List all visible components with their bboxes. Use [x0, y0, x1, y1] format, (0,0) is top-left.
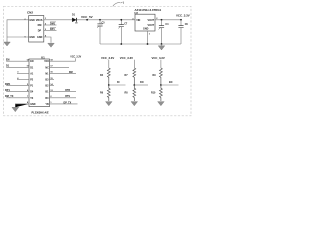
svg-text:EN: EN	[169, 81, 173, 84]
svg-text:DP1: DP1	[50, 28, 55, 31]
svg-text:VBUS: VBUS	[36, 19, 43, 22]
svg-text:GND: GND	[29, 19, 35, 22]
wire ground rail	[100, 43, 181, 45]
ground (col3)	[158, 102, 165, 106]
svg-text:DP_TX: DP_TX	[64, 101, 72, 104]
wire	[160, 60, 162, 68]
capacitor C7	[118, 20, 128, 44]
svg-text:R10: R10	[151, 92, 156, 95]
wire U1 right row5	[50, 85, 55, 87]
wire	[133, 60, 135, 68]
svg-text:DTR: DTR	[65, 89, 70, 92]
svg-text:EN: EN	[6, 58, 10, 61]
node col1	[108, 84, 110, 86]
wire VBUS pin1	[44, 19, 72, 21]
svg-text:DM: DM	[38, 24, 42, 27]
svg-text:DO: DO	[140, 81, 144, 84]
svg-text:VCC_5V: VCC_5V	[81, 15, 93, 19]
svg-text:VCC_3.3V: VCC_3.3V	[70, 56, 81, 58]
resistor column 3	[151, 56, 179, 106]
svg-text:DM1: DM1	[5, 83, 11, 86]
wire	[108, 60, 110, 68]
wire U1 right row7 RTS	[50, 97, 77, 99]
node col3	[160, 84, 162, 86]
svg-text:GND: GND	[29, 36, 35, 39]
ground (CN2 pin4)	[48, 43, 55, 47]
ground (col1)	[106, 102, 113, 106]
node C4 top	[161, 19, 163, 21]
node rail junctions	[120, 43, 122, 45]
resistor R7	[133, 68, 136, 85]
capacitor C5	[97, 20, 105, 44]
diode D1	[72, 14, 78, 25]
wire U1 gnd row8	[15, 104, 29, 107]
svg-text:TX: TX	[30, 97, 33, 100]
svg-text:DM: DM	[69, 71, 73, 74]
wire CN2 shield gnds	[7, 20, 29, 42]
resistor column 1	[100, 56, 126, 106]
wire DP pin3	[44, 30, 57, 32]
resistor R10	[159, 85, 162, 101]
wire U1 left row3	[17, 72, 29, 74]
annotation mark	[113, 2, 124, 7]
svg-text:DM_TX: DM_TX	[5, 95, 14, 98]
wire U1 right row3	[50, 72, 77, 74]
wire U1 left row1 EN	[6, 60, 29, 62]
wire U1 right row6 DTR	[50, 91, 77, 93]
wire stub EN	[161, 84, 179, 86]
wire U2 output VCC_3.3V	[155, 19, 181, 21]
svg-text:EN: EN	[30, 60, 34, 63]
svg-text:GND: GND	[37, 36, 43, 39]
node col2	[133, 84, 135, 86]
svg-text:DI: DI	[117, 81, 120, 84]
svg-text:VOUT: VOUT	[148, 24, 155, 27]
wire U1 left row2	[6, 66, 29, 68]
svg-text:DM1: DM1	[50, 22, 56, 25]
wire U1 left row7 DM_TX	[6, 97, 29, 99]
svg-text:GND: GND	[30, 103, 36, 106]
svg-text:RTS: RTS	[65, 95, 70, 98]
wire stub DI	[109, 84, 126, 86]
svg-text:VIN: VIN	[136, 19, 140, 22]
wire U1 right row2	[50, 66, 70, 68]
resistor R9	[159, 68, 162, 85]
node VCC_5V	[86, 19, 88, 21]
wire U1 left row4	[17, 79, 29, 81]
regulator U2	[132, 8, 161, 36]
ground (U1)	[12, 107, 19, 111]
resistor R6	[107, 85, 110, 101]
wire CN2 pin4 gnd	[44, 37, 51, 43]
node C6 top	[180, 19, 182, 21]
resistor R4	[107, 68, 110, 85]
svg-text:NC: NC	[45, 66, 49, 69]
capacitor C6	[178, 20, 188, 44]
wire U1 right row8 DP_TX	[50, 103, 78, 105]
svg-text:VCC_3.3V: VCC_3.3V	[176, 14, 190, 18]
svg-text:CN2: CN2	[27, 10, 33, 14]
ground (col2)	[131, 102, 138, 106]
capacitor C4	[159, 20, 170, 44]
svg-text:PL2303HX-A/E: PL2303HX-A/E	[32, 112, 50, 115]
svg-text:DP: DP	[38, 30, 42, 33]
wire VCC_5V rail	[77, 19, 136, 21]
svg-text:YB: YB	[45, 103, 49, 106]
wire DM pin2	[44, 24, 57, 26]
connector CN2	[25, 10, 47, 42]
svg-text:AZ1117EH-3.3TRG1: AZ1117EH-3.3TRG1	[135, 8, 162, 12]
wire U1 right row4	[50, 79, 55, 81]
svg-text:VCC_3.3V: VCC_3.3V	[152, 56, 165, 60]
wire U1 left row5 DM1	[6, 85, 29, 87]
wire U1 right row1 VCC	[50, 58, 76, 61]
resistor column 2	[120, 56, 148, 106]
node C7 top	[120, 19, 122, 21]
wire U2 gnd	[147, 31, 149, 44]
wire U1 left row6 DP1	[6, 91, 29, 93]
ground (CN2 shield)	[4, 41, 11, 46]
IC U1	[29, 56, 50, 115]
svg-text:VCC: VCC	[44, 60, 49, 63]
svg-text:DP1: DP1	[5, 89, 10, 92]
wire stub DO	[134, 84, 148, 86]
sheet border	[4, 6, 191, 116]
ground (rail)	[158, 44, 165, 50]
svg-text:GND: GND	[143, 27, 149, 30]
svg-text:VOUT: VOUT	[148, 19, 155, 22]
svg-text:VCC_3.3V: VCC_3.3V	[120, 56, 133, 60]
resistor R8	[133, 85, 136, 101]
svg-text:VCC_3.3V: VCC_3.3V	[101, 56, 114, 60]
